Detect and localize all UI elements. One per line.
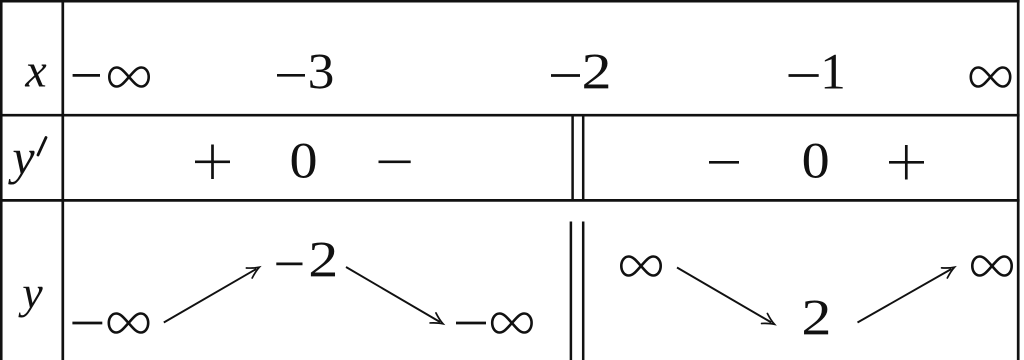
svg-text:1: 1 (820, 44, 846, 100)
svg-text:3: 3 (308, 44, 335, 101)
svg-text:0: 0 (289, 132, 317, 189)
svg-text:y: y (18, 267, 43, 318)
svg-text:x: x (24, 45, 46, 98)
svg-text:2: 2 (308, 232, 338, 289)
svg-text:0: 0 (802, 132, 830, 189)
svg-text:y: y (7, 129, 35, 185)
svg-text:2: 2 (581, 44, 611, 101)
svg-text:2: 2 (801, 290, 831, 347)
